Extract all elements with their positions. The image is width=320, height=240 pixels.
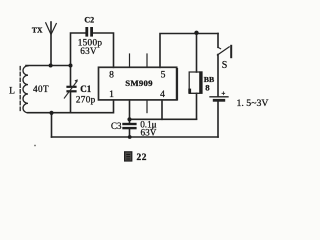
svg-text:1: 1 <box>109 89 114 100</box>
svg-text:L: L <box>9 85 15 96</box>
svg-text:C2: C2 <box>84 16 94 25</box>
svg-text:C3: C3 <box>111 121 122 131</box>
svg-text:63V: 63V <box>141 127 157 137</box>
svg-text:40T: 40T <box>33 84 49 94</box>
svg-text:TX: TX <box>32 26 43 35</box>
svg-text:SM909: SM909 <box>125 78 153 88</box>
svg-text:1. 5~3V: 1. 5~3V <box>237 98 269 109</box>
svg-text:S: S <box>222 60 228 71</box>
svg-text:4: 4 <box>160 89 165 100</box>
svg-text:270p: 270p <box>76 94 96 104</box>
svg-text:C1: C1 <box>80 84 91 94</box>
svg-text:8: 8 <box>109 69 114 80</box>
svg-text:8: 8 <box>205 82 210 92</box>
svg-text:63V: 63V <box>80 46 97 56</box>
svg-text:+: + <box>221 89 225 97</box>
svg-text:5: 5 <box>161 69 166 80</box>
svg-text:22: 22 <box>137 153 148 163</box>
